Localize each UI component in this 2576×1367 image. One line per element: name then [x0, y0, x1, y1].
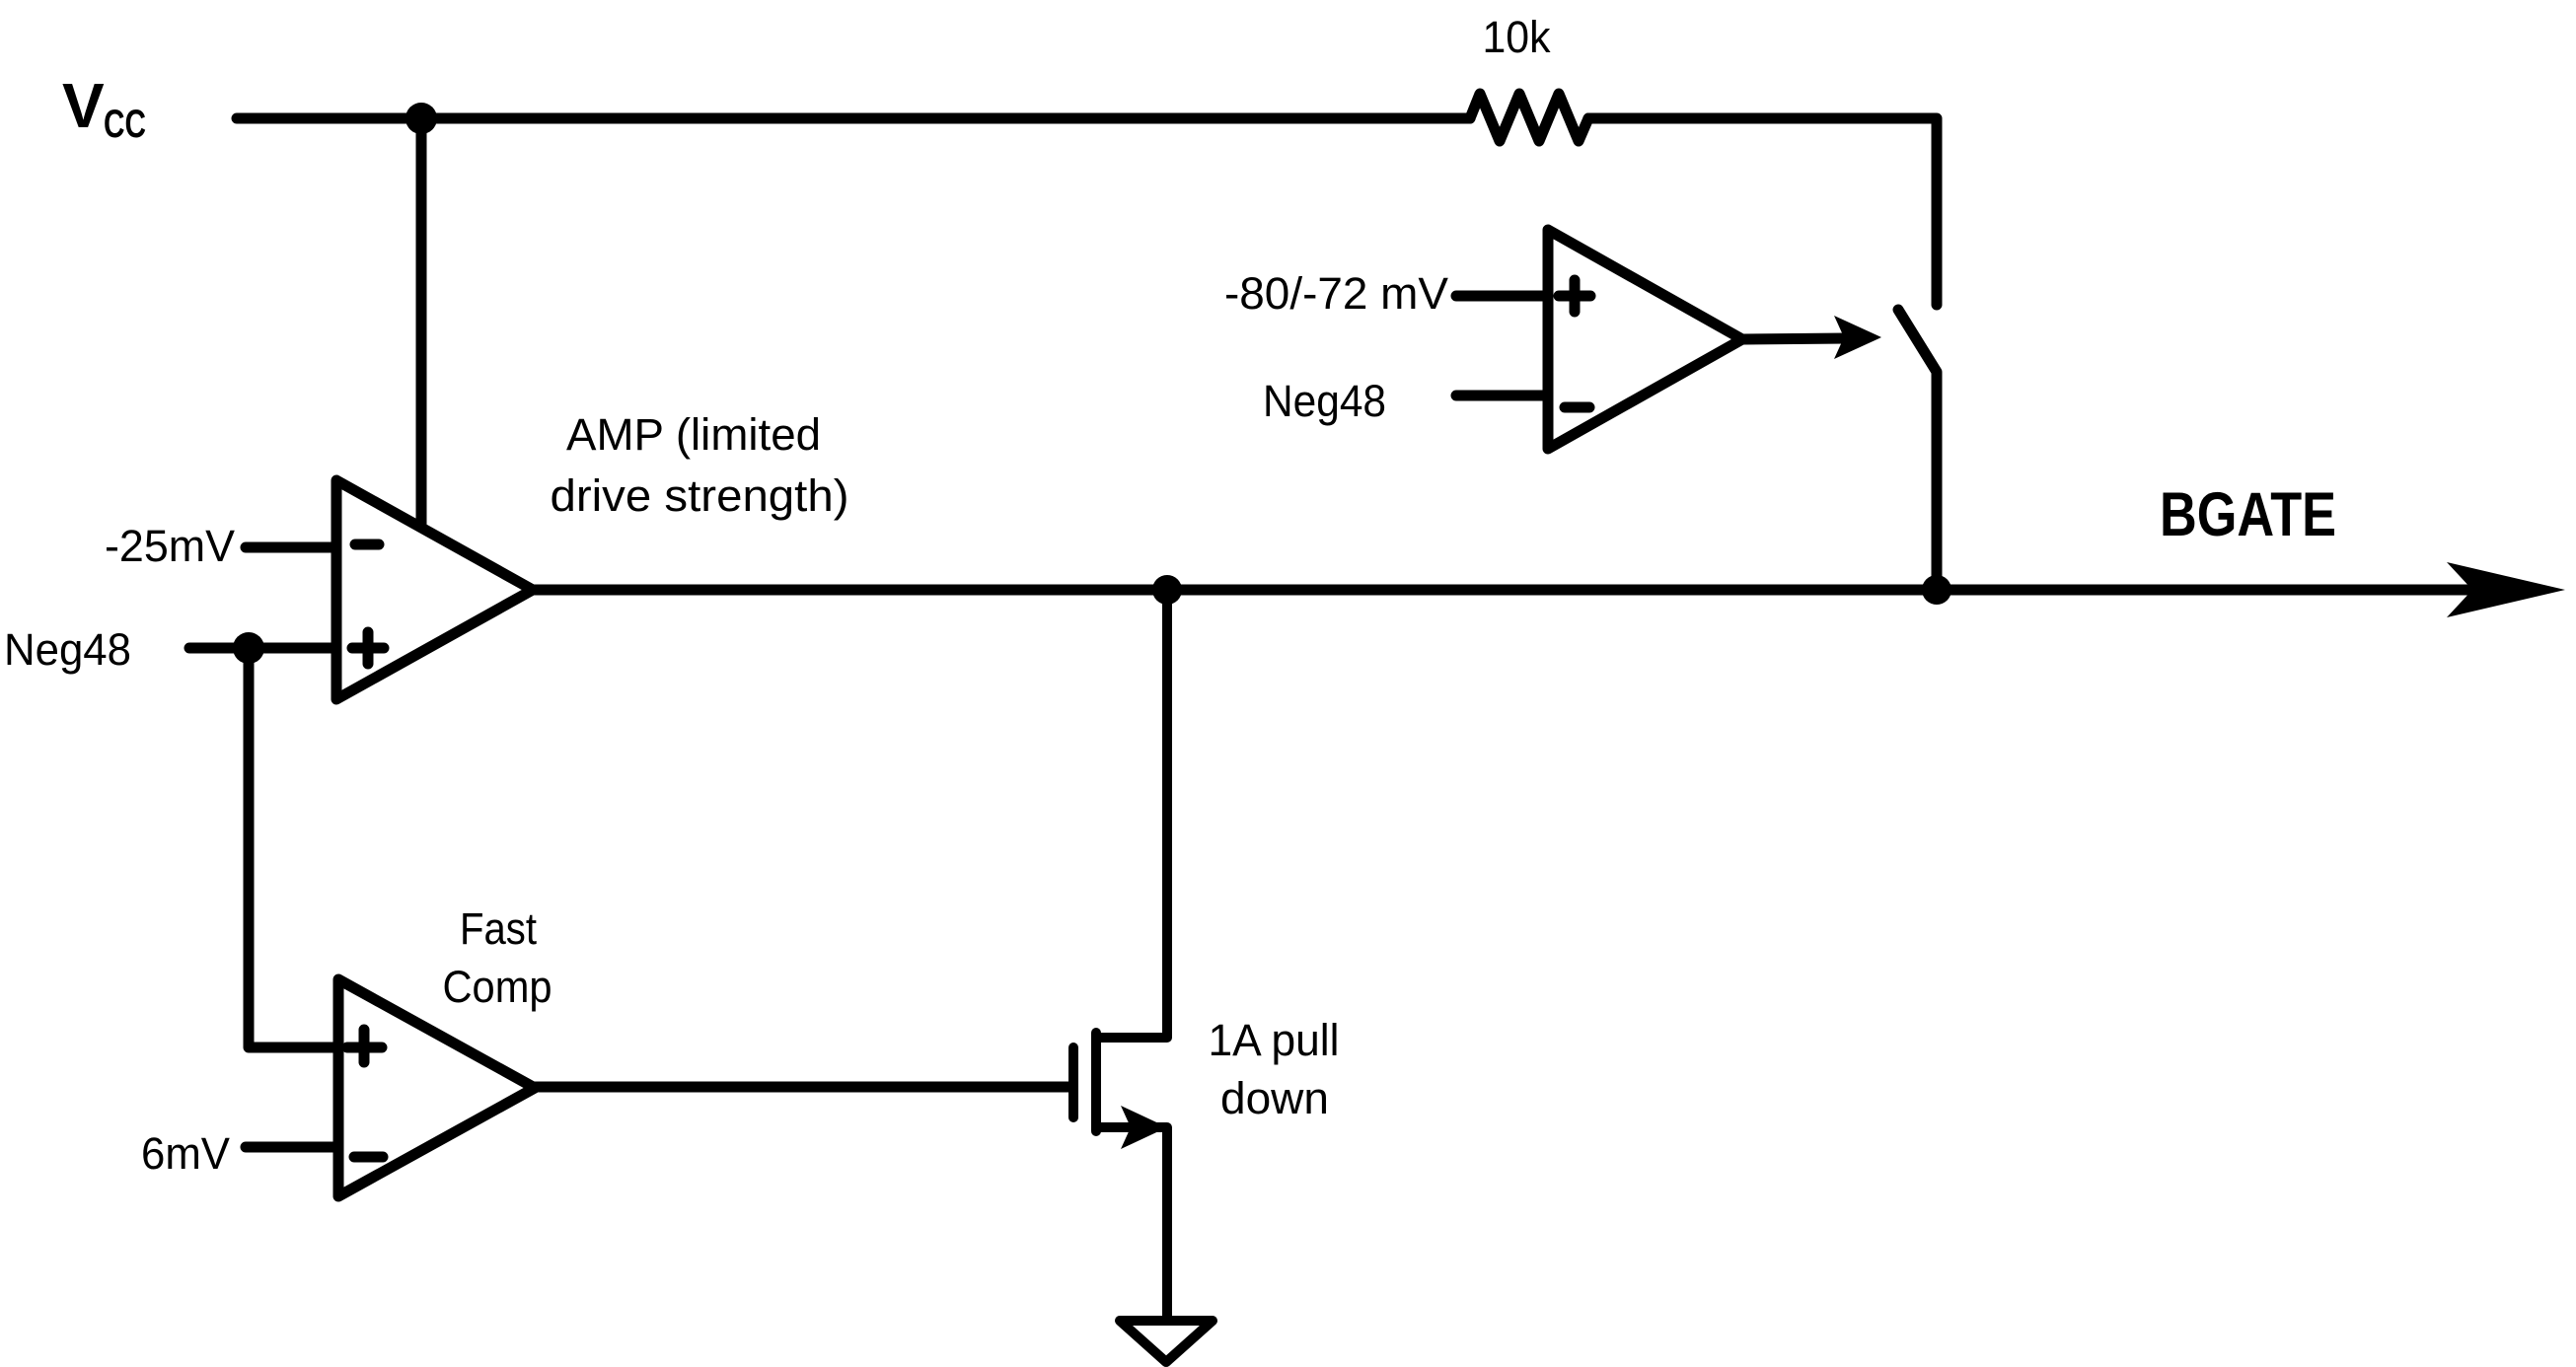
wire Fast Comp inverting input 6mV [246, 1142, 338, 1153]
comparator U2 plus symbol [1559, 280, 1590, 312]
junction node BGATE/switch [1922, 575, 1951, 605]
svg-text:Fast: Fast [460, 903, 537, 954]
wire Vcc rail to resistor [237, 113, 1470, 124]
comparator U3 plus symbol [347, 1030, 382, 1062]
svg-text:down: down [1220, 1073, 1329, 1123]
op-amp U1 AMP (limited drive strength) [336, 480, 533, 699]
transistor Q1 drain wire up to BGATE junction [1096, 596, 1167, 1038]
svg-text:BGATE: BGATE [2160, 480, 2336, 549]
arrowhead comparator U2 output [1834, 316, 1881, 359]
op-amp U1 minus symbol [355, 540, 379, 550]
ground symbol [1120, 1321, 1213, 1362]
wire resistor to switch upper terminal [1588, 118, 1937, 305]
arrowhead BGATE output [2447, 562, 2565, 617]
junction node BGATE/drain [1152, 575, 1182, 605]
comparator U2 triangle [1548, 230, 1742, 449]
wire comparator U2 plus input [1456, 291, 1548, 302]
wire comparator U2 minus input [1456, 391, 1548, 401]
comparator U3 Fast Comp triangle [338, 979, 535, 1196]
wire Neg48 down to Fast Comp plus input [249, 648, 338, 1047]
svg-text:1A pull: 1A pull [1209, 1015, 1340, 1065]
op-amp U1 plus symbol [352, 632, 384, 664]
switch SW1 blade and lower terminal [1898, 310, 1937, 590]
svg-text:V: V [62, 70, 105, 141]
transistor Q1 channel bar [1091, 1033, 1101, 1131]
wire Vcc junction down to AMP [416, 118, 427, 528]
svg-text:6mV: 6mV [141, 1128, 230, 1179]
svg-text:Comp: Comp [443, 962, 552, 1012]
svg-text:drive strength): drive strength) [551, 470, 849, 521]
transistor Q1 gate bar [1068, 1047, 1078, 1117]
transistor Q1 source wire down to ground [1096, 1127, 1167, 1321]
svg-text:-25mV: -25mV [105, 521, 235, 571]
wire AMP non-inverting input Neg48 [189, 643, 336, 654]
svg-text:AMP (limited: AMP (limited [566, 409, 821, 460]
resistor R1 10k zigzag [1470, 94, 1588, 141]
wire Fast Comp output to MOSFET gate [535, 1082, 1071, 1093]
comparator U2 minus symbol [1565, 402, 1589, 413]
wire BGATE net main line [533, 585, 2526, 596]
wire AMP inverting input -25mV [246, 542, 336, 553]
svg-text:Neg48: Neg48 [1263, 376, 1386, 426]
junction node Neg48 [233, 632, 264, 664]
svg-text:CC: CC [104, 103, 146, 146]
svg-text:-80/-72 mV: -80/-72 mV [1224, 268, 1448, 319]
comparator U3 minus symbol [354, 1152, 383, 1163]
svg-text:10k: 10k [1483, 12, 1551, 62]
junction node Vcc/AMP [405, 103, 437, 134]
arrowhead transistor Q1 source [1121, 1106, 1167, 1149]
svg-text:Neg48: Neg48 [4, 624, 131, 675]
wire comparator U2 output [1742, 338, 1847, 339]
